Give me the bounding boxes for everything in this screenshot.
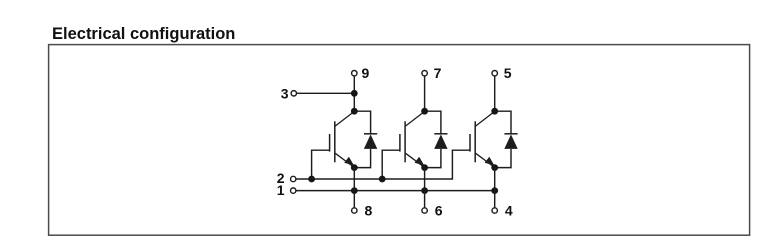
emitter diagonal Q1 bbox=[335, 153, 354, 167]
pin 8 terminal bbox=[352, 208, 357, 213]
node: Q1 gate on bus 2 bbox=[308, 176, 315, 183]
node: Q2 gate on bus 2 bbox=[379, 176, 386, 183]
diode D1 bbox=[354, 111, 377, 167]
body bar Q2 bbox=[404, 121, 406, 162]
svg-text:7: 7 bbox=[434, 65, 442, 81]
pin 2 terminal bbox=[291, 176, 296, 181]
svg-text:3: 3 bbox=[281, 85, 289, 101]
wire: gate riser Q2 bbox=[382, 150, 400, 179]
node: Q3 collector/diode junction bbox=[491, 108, 498, 115]
node: Q1 emitter junction bbox=[351, 164, 358, 171]
wire: pin 3 to node A bbox=[297, 92, 355, 94]
collector diagonal Q1 bbox=[335, 111, 354, 126]
D3 cathode bar bbox=[504, 133, 517, 135]
wire: D2 anode to emitter node bbox=[425, 149, 441, 168]
D1 triangle bbox=[364, 134, 377, 149]
svg-text:8: 8 bbox=[365, 203, 373, 219]
wire: emitter bus from pin 1 to Q3 emitter bbox=[296, 190, 495, 192]
node: Q3 emitter on bus 1 bbox=[491, 187, 498, 194]
wire: Q1 emitter down to pin 8 bbox=[353, 168, 355, 208]
emitter arrowhead Q3 bbox=[485, 157, 495, 166]
node: Q1 emitter on bus 1 bbox=[351, 187, 358, 194]
wire: D3 anode to emitter node bbox=[495, 149, 511, 168]
wire: Q2 emitter down to pin 6 bbox=[424, 168, 426, 208]
body bar Q3 bbox=[474, 121, 476, 162]
svg-text:6: 6 bbox=[435, 203, 443, 219]
pin 6 terminal bbox=[422, 208, 427, 213]
collector diagonal Q2 bbox=[406, 111, 425, 126]
pin 4 terminal bbox=[492, 208, 497, 213]
node: Q2 collector/diode junction bbox=[421, 108, 428, 115]
pin 5 terminal bbox=[492, 71, 497, 76]
wire: D1 anode to emitter node bbox=[354, 149, 370, 168]
wire: pin 7 down to collector node bbox=[424, 76, 426, 111]
svg-text:4: 4 bbox=[505, 203, 513, 219]
D3 triangle bbox=[504, 134, 517, 149]
wire: D1 cathode branch bbox=[354, 111, 370, 134]
diode D2 bbox=[425, 111, 448, 167]
diode D3 bbox=[495, 111, 518, 167]
node: Q1 collector junction with pin3 bbox=[351, 90, 358, 97]
pin 3 terminal bbox=[291, 91, 296, 96]
svg-text:5: 5 bbox=[504, 65, 512, 81]
node: Q3 emitter junction bbox=[491, 164, 498, 171]
gate bar Q2 bbox=[399, 134, 401, 152]
svg-text:Electrical configuration: Electrical configuration bbox=[52, 25, 235, 43]
wire: gate bus from pin 2 to riser of Q3 bbox=[296, 150, 470, 179]
wire: gate riser Q1 bbox=[312, 150, 330, 179]
D1 cathode bar bbox=[364, 133, 377, 135]
node: Q2 emitter junction bbox=[421, 164, 428, 171]
node: Q1 collector/diode junction bbox=[351, 108, 358, 115]
wire: pin 9 down to collector node bbox=[353, 76, 355, 111]
node: Q2 emitter on bus 1 bbox=[421, 187, 428, 194]
emitter diagonal Q3 bbox=[476, 153, 495, 167]
pin 1 terminal bbox=[291, 188, 296, 193]
wire: D2 cathode branch bbox=[425, 111, 441, 134]
transistor Q3 (IGBT) bbox=[470, 111, 495, 167]
gate bar Q1 bbox=[329, 134, 331, 152]
pin 9 terminal bbox=[352, 71, 357, 76]
transistor Q2 (IGBT) bbox=[400, 111, 425, 167]
svg-text:1: 1 bbox=[277, 182, 285, 198]
gate bar Q3 bbox=[469, 134, 471, 152]
svg-text:9: 9 bbox=[362, 65, 370, 81]
D2 cathode bar bbox=[434, 133, 447, 135]
emitter diagonal Q2 bbox=[406, 153, 425, 167]
transistor Q1 (IGBT) bbox=[330, 111, 355, 167]
pin 7 terminal bbox=[422, 71, 427, 76]
frame box bbox=[49, 45, 750, 236]
wire: D3 cathode branch bbox=[495, 111, 511, 134]
body bar Q1 bbox=[334, 121, 336, 162]
emitter arrowhead Q2 bbox=[415, 157, 425, 166]
wire: Q3 emitter down to pin 4 bbox=[494, 168, 496, 208]
wire: pin 5 down to collector node bbox=[494, 76, 496, 111]
D2 triangle bbox=[434, 134, 447, 149]
emitter arrowhead Q1 bbox=[344, 157, 354, 166]
collector diagonal Q3 bbox=[476, 111, 495, 126]
